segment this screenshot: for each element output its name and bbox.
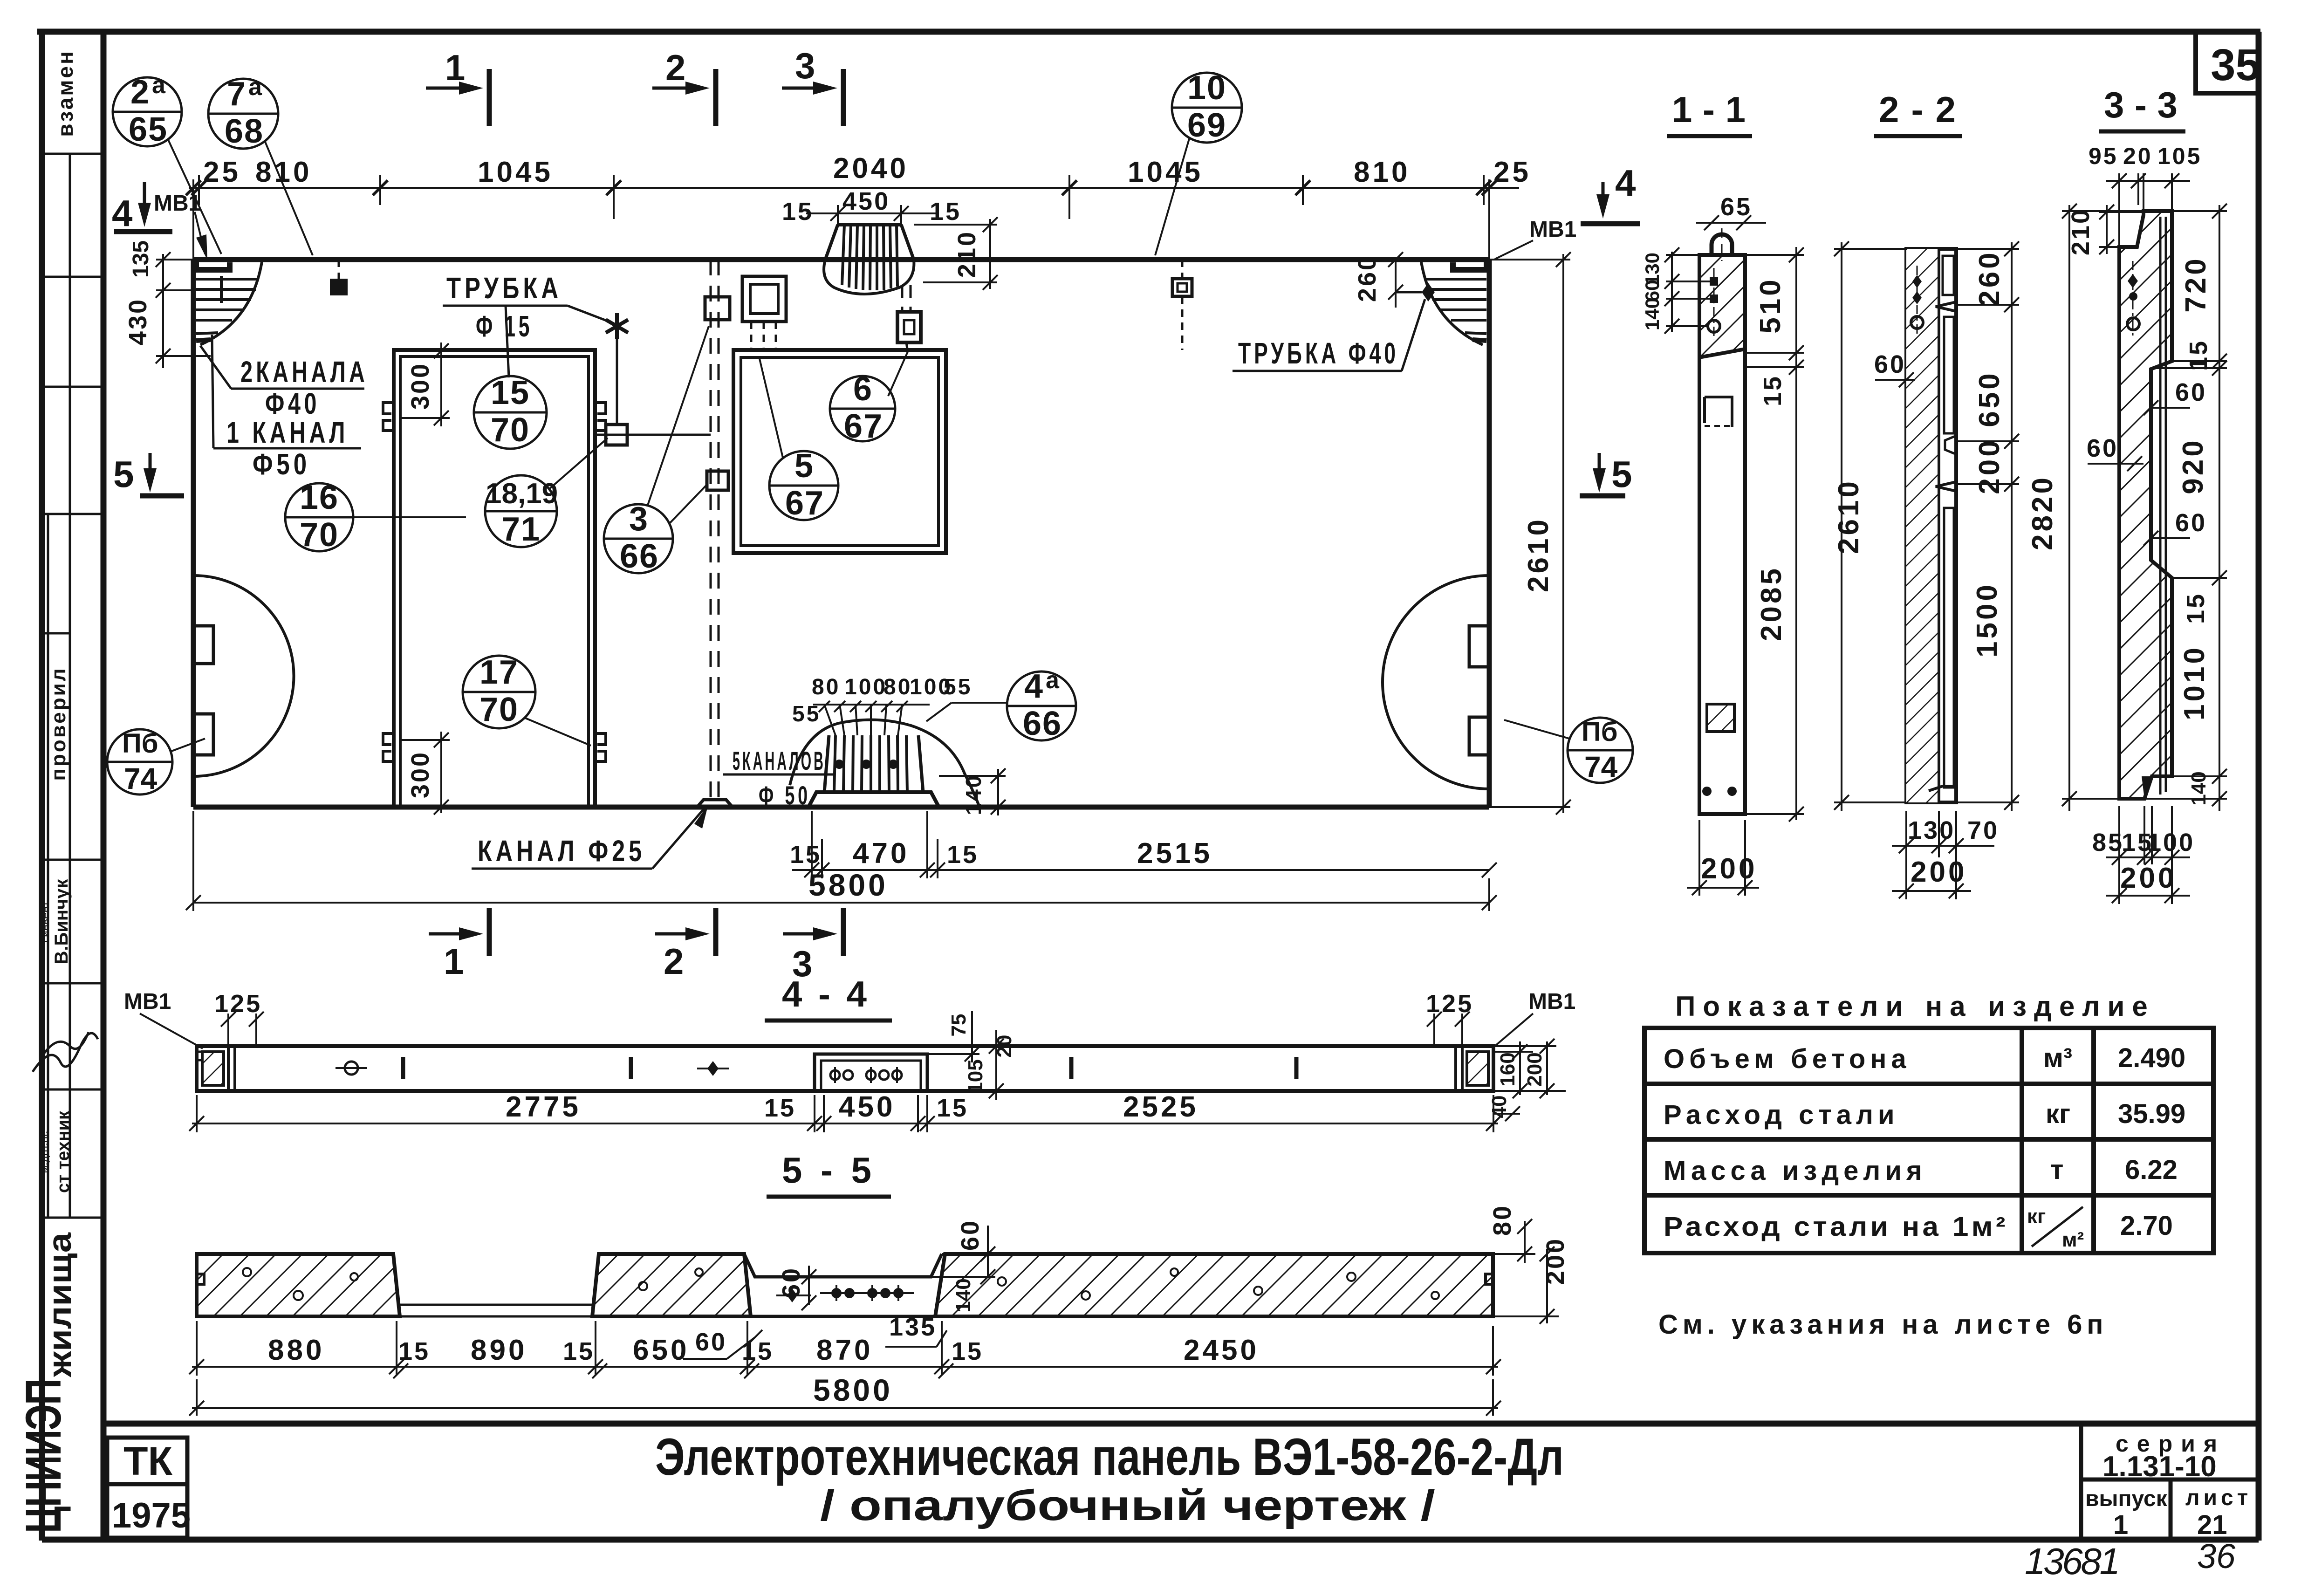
svg-text:2515: 2515 [1137, 837, 1212, 870]
TK box [107, 1438, 187, 1484]
2610 right dim [1489, 252, 1571, 815]
svg-text:100: 100 [844, 675, 887, 699]
svg-text:67: 67 [844, 408, 883, 445]
200 bottom dim [1687, 820, 1759, 896]
svg-text:35.99: 35.99 [2118, 1099, 2185, 1129]
svg-text:2: 2 [665, 47, 685, 88]
circle 5/67 [760, 359, 838, 522]
svg-text:720: 720 [2180, 256, 2212, 312]
svg-text:69: 69 [1187, 107, 1226, 144]
svg-text:а: а [248, 74, 262, 101]
140 pedestal dim [939, 768, 1006, 815]
svg-text:ст техник: ст техник [54, 1110, 73, 1193]
svg-text:ТРУБКА: ТРУБКА [446, 271, 562, 305]
svg-text:40: 40 [1488, 1096, 1511, 1118]
svg-text:м.днт.нг.: м.днт.нг. [38, 1130, 50, 1173]
svg-text:66: 66 [1023, 705, 1062, 742]
svg-text:75: 75 [947, 1014, 970, 1037]
svg-text:125: 125 [214, 990, 262, 1018]
svg-text:60: 60 [777, 1267, 805, 1298]
svg-text:260: 260 [1973, 250, 2006, 306]
trubka f15 riser line [616, 326, 618, 425]
svg-text:210: 210 [2067, 208, 2095, 255]
formwork panel 1 (left) [394, 350, 595, 807]
svg-text:36: 36 [2197, 1537, 2236, 1575]
face slots and notches [1943, 256, 1954, 295]
svg-text:Ф 50: Ф 50 [759, 781, 811, 810]
svg-text:Объем бетона: Объем бетона [1664, 1044, 1911, 1074]
svg-text:15: 15 [782, 198, 814, 226]
dashed channel line pair [711, 260, 719, 802]
2-2 left 2610 dim [1834, 241, 1906, 811]
svg-text:55: 55 [792, 702, 821, 726]
svg-text:5: 5 [113, 453, 134, 495]
label 5 KANALOV f50 [723, 746, 834, 810]
65 dim [1696, 215, 1766, 230]
svg-text:5800: 5800 [813, 1373, 893, 1407]
svg-text:5: 5 [794, 447, 814, 485]
circle IIb/74 right [1504, 717, 1633, 784]
svg-text:200: 200 [1973, 438, 2006, 494]
circle 17/70 [463, 654, 591, 746]
svg-text:2.70: 2.70 [2120, 1211, 2173, 1241]
svg-text:2.490: 2.490 [2118, 1043, 2185, 1073]
svg-text:4 - 4: 4 - 4 [782, 973, 867, 1014]
top dots [2128, 274, 2138, 288]
svg-text:70: 70 [479, 691, 519, 728]
svg-text:67: 67 [785, 485, 824, 522]
260 vertical dim right [1388, 252, 1403, 308]
svg-text:Расход стали: Расход стали [1664, 1100, 1899, 1130]
hatched head block [1699, 255, 1745, 357]
200 dim right [1493, 1247, 1559, 1324]
svg-text:Пб: Пб [1582, 717, 1618, 747]
svg-text:взамен: взамен [53, 49, 77, 137]
2-2 bottom dims [1892, 811, 1994, 899]
svg-text:МВ1: МВ1 [1528, 989, 1575, 1014]
svg-text:15: 15 [952, 1337, 983, 1365]
connector line panel1 to channel [595, 434, 711, 436]
svg-text:2КАНАЛА: 2КАНАЛА [240, 355, 368, 389]
svg-text:60: 60 [1874, 350, 1906, 378]
svg-text:15: 15 [930, 198, 961, 226]
section mark 3 bottom [783, 908, 843, 984]
svg-text:15: 15 [937, 1094, 968, 1122]
svg-text:74: 74 [1584, 750, 1618, 784]
2820 left dim [2062, 204, 2144, 811]
300 dim top panel1 [402, 342, 450, 426]
svg-text:140: 140 [2187, 771, 2210, 805]
svg-text:1045: 1045 [1128, 156, 1203, 188]
panel outline [193, 260, 1489, 807]
svg-text:лист: лист [2185, 1486, 2252, 1510]
anchor dots [1710, 277, 1718, 286]
svg-text:5КАНАЛОВ: 5КАНАЛОВ [733, 746, 826, 775]
svg-text:125: 125 [1426, 990, 1473, 1018]
svg-text:7: 7 [227, 75, 247, 113]
svg-text:1: 1 [445, 47, 465, 88]
svg-text:4: 4 [1024, 668, 1044, 705]
75/20/105 dims right of recess [927, 1011, 1004, 1100]
circle 4a/66 [926, 667, 1076, 742]
section mark 4 right + MB1 label [1495, 162, 1640, 259]
trubka f15 star symbol [606, 313, 628, 339]
svg-text:2525: 2525 [1123, 1091, 1198, 1123]
svg-text:2: 2 [664, 941, 684, 982]
svg-text:1 - 1: 1 - 1 [1672, 89, 1746, 130]
svg-text:60: 60 [2087, 434, 2118, 462]
junction box on top edge [330, 279, 348, 295]
svg-text:210: 210 [953, 230, 981, 278]
bottom dim chain 15-470-15-2515 [792, 811, 1497, 878]
svg-text:1: 1 [444, 941, 464, 982]
left end block [197, 1046, 235, 1091]
channel fan top-right [1421, 262, 1486, 345]
top dimension chain [189, 175, 1519, 260]
corrugated channel top (450) [824, 225, 914, 294]
svg-text:2040: 2040 [833, 152, 909, 185]
svg-text:300: 300 [406, 751, 434, 798]
svg-text:1.131-10: 1.131-10 [2102, 1451, 2217, 1483]
svg-text:71: 71 [501, 511, 541, 548]
svg-text:2: 2 [130, 74, 150, 111]
label 1 KANAL f50 [212, 335, 361, 481]
svg-text:65: 65 [129, 111, 168, 148]
connector box [606, 425, 627, 445]
middle hatched block 650 [592, 1254, 751, 1316]
svg-text:В.Бинчук: В.Бинчук [51, 879, 72, 965]
section 3-3 column [2119, 211, 2172, 799]
svg-text:Масса изделия: Масса изделия [1664, 1156, 1927, 1186]
svg-text:МВ1: МВ1 [124, 989, 171, 1014]
circle 16/70 [285, 479, 466, 554]
left edge arc [193, 575, 294, 776]
svg-text:15: 15 [790, 841, 822, 869]
left edge notches [193, 626, 213, 664]
svg-text:ЦНИИЭП: ЦНИИЭП [15, 1379, 71, 1533]
label 2 KANALA f40 [200, 346, 368, 420]
section mark 5 right [1580, 453, 1632, 496]
svg-text:1 КАНАЛ: 1 КАНАЛ [226, 416, 349, 449]
svg-text:МВ1: МВ1 [1529, 217, 1576, 242]
wire box on dashed line (top) [705, 297, 730, 320]
svg-text:650: 650 [633, 1334, 689, 1366]
svg-text:135: 135 [889, 1313, 937, 1341]
210 dim [2099, 205, 2143, 254]
svg-text:430: 430 [124, 298, 152, 345]
svg-text:15: 15 [742, 1337, 774, 1365]
svg-text:105: 105 [964, 1059, 987, 1093]
lifting loop [1712, 234, 1732, 255]
hatched insert [1707, 704, 1734, 732]
svg-text:ТК: ТК [123, 1439, 173, 1484]
concrete pebbles [243, 1268, 1439, 1300]
svg-text:260: 260 [1353, 254, 1381, 302]
svg-text:80: 80 [1488, 1204, 1516, 1236]
svg-text:Ф50: Ф50 [253, 447, 310, 481]
svg-text:м²: м² [2062, 1228, 2084, 1251]
svg-text:200: 200 [1541, 1237, 1569, 1285]
svg-text:т.инвент.: т.инвент. [39, 899, 52, 944]
svg-text:кг: кг [2027, 1205, 2046, 1228]
4-4 dim chain [189, 1095, 1501, 1132]
circle 18,19/71 [485, 438, 608, 548]
wire box on dashed line (middle) [707, 471, 728, 490]
svg-text:100: 100 [2147, 829, 2195, 856]
svg-text:5800: 5800 [808, 868, 888, 902]
svg-text:450: 450 [839, 1091, 895, 1123]
svg-text:140: 140 [961, 774, 986, 815]
strip outline [197, 1046, 1493, 1091]
panel 1 hinges [383, 403, 606, 761]
formwork panel 2 (right) [733, 350, 946, 553]
signature scribbles [33, 1033, 98, 1072]
svg-text:1500: 1500 [1971, 582, 2003, 658]
svg-text:16: 16 [300, 479, 339, 516]
svg-text:810: 810 [255, 156, 312, 188]
svg-text:200: 200 [1911, 856, 1967, 888]
svg-text:15: 15 [947, 841, 979, 869]
svg-text:15: 15 [764, 1094, 796, 1122]
trubka f40 diamond right [1422, 283, 1435, 301]
svg-text:выпуск: выпуск [2085, 1486, 2168, 1511]
right hatched block 2450 [935, 1254, 1493, 1316]
svg-text:Расход стали на 1м²: Расход стали на 1м² [1664, 1212, 2008, 1242]
svg-text:Электротехническая панель ВЭ: Электротехническая панель ВЭ1-58-26-2-Дл [655, 1428, 1564, 1486]
svg-text:2610: 2610 [1522, 517, 1555, 592]
svg-text:т: т [2050, 1155, 2063, 1185]
right edge arc [1383, 575, 1489, 789]
svg-text:5: 5 [1611, 453, 1632, 495]
pedestal at dashed line bottom [697, 800, 733, 807]
svg-text:1: 1 [2113, 1510, 2128, 1540]
svg-text:810: 810 [1354, 156, 1410, 188]
svg-text:890: 890 [471, 1334, 527, 1366]
svg-text:а: а [152, 72, 166, 99]
svg-text:66: 66 [620, 538, 659, 575]
svg-text:15: 15 [1759, 375, 1787, 406]
160/200/40 dims right end [1493, 1039, 1566, 1121]
5-5 dim chain [189, 1321, 1501, 1378]
svg-text:25: 25 [1493, 156, 1531, 188]
svg-text:80: 80 [812, 675, 840, 699]
top dots [1912, 275, 1922, 288]
svg-text:Пб: Пб [122, 728, 158, 759]
svg-text:Ф 15: Ф 15 [476, 309, 533, 343]
svg-text:5 - 5: 5 - 5 [782, 1150, 871, 1191]
svg-text:/ опалубочный чертеж /: / опалубочный чертеж / [820, 1482, 1435, 1529]
60 recess depth dim [801, 1266, 816, 1310]
svg-text:60: 60 [2175, 509, 2207, 537]
svg-text:70: 70 [300, 516, 339, 554]
svg-text:3: 3 [629, 500, 649, 538]
left 140/60/130 dims [1664, 247, 1710, 334]
210 vertical dim [914, 217, 998, 290]
svg-text:85: 85 [2092, 829, 2124, 856]
60 step dim top [931, 1226, 995, 1284]
300 dim bottom panel1 [402, 732, 450, 815]
svg-text:15: 15 [563, 1337, 595, 1365]
svg-text:6: 6 [853, 370, 873, 408]
svg-text:60: 60 [695, 1328, 727, 1356]
svg-text:См. указания на листе 6п: См. указания на листе 6п [1658, 1309, 2108, 1340]
middle recess with anchors [815, 1054, 927, 1091]
circle 10/69 [1155, 69, 1242, 255]
corrugated channel bottom (5 channels) [790, 720, 979, 807]
svg-text:жилища: жилища [41, 1232, 78, 1377]
bottom dots [1702, 787, 1712, 796]
section mark 2 top [652, 47, 716, 126]
bottom 5800 dim [186, 811, 1497, 911]
2-2 right dim chain [1956, 241, 2019, 811]
svg-text:КАНАЛ Ф25: КАНАЛ Ф25 [478, 834, 645, 868]
svg-text:65: 65 [1720, 193, 1752, 221]
svg-text:105: 105 [2157, 143, 2202, 169]
95 20 105 dims [2089, 143, 2202, 169]
bottom corrugation fan dims [813, 701, 930, 735]
svg-text:200: 200 [2120, 862, 2177, 894]
MB1 corner socket top-left [196, 260, 230, 270]
svg-text:10: 10 [1187, 69, 1226, 107]
svg-text:1975: 1975 [112, 1496, 191, 1535]
5-5 5800 dim [189, 1379, 1501, 1416]
svg-text:20: 20 [993, 1035, 1016, 1058]
open recess [1705, 397, 1732, 427]
svg-text:3 - 3: 3 - 3 [2104, 84, 2178, 125]
svg-text:1045: 1045 [478, 156, 553, 188]
svg-text:2085: 2085 [1755, 566, 1787, 641]
svg-text:68: 68 [225, 113, 264, 150]
svg-text:м³: м³ [2043, 1043, 2072, 1073]
series box [2081, 1424, 2259, 1540]
section mark 4 left + MB1 label [112, 182, 207, 260]
svg-text:70: 70 [491, 411, 530, 449]
svg-text:6.22: 6.22 [2125, 1155, 2178, 1185]
circle 3/66 [604, 326, 709, 575]
svg-text:15: 15 [398, 1337, 430, 1365]
450 opening dim [806, 205, 937, 225]
section mark 1 top [426, 47, 489, 126]
svg-text:200: 200 [1523, 1052, 1546, 1086]
svg-text:55: 55 [944, 675, 972, 699]
svg-text:80: 80 [883, 675, 912, 699]
svg-text:Показатели на изделие: Показатели на изделие [1675, 991, 2155, 1022]
circle IIb/74 left [107, 728, 205, 795]
label TRUBKA f40 [1233, 299, 1425, 371]
svg-text:510: 510 [1754, 277, 1787, 333]
sheet number box 35 [2196, 34, 2260, 93]
section mark 1 bottom [429, 908, 489, 982]
svg-text:а: а [1046, 667, 1060, 694]
svg-text:кг: кг [2046, 1099, 2070, 1129]
svg-text:300: 300 [406, 362, 434, 410]
inserts along strip [336, 1057, 1296, 1079]
svg-text:140: 140 [952, 1278, 975, 1312]
svg-text:870: 870 [816, 1334, 873, 1366]
svg-text:13681: 13681 [2025, 1541, 2120, 1582]
svg-text:130: 130 [1908, 816, 1955, 844]
section 2-2 column [1906, 249, 1956, 802]
section mark 3 top [782, 45, 843, 126]
switch box double square top [742, 276, 786, 322]
svg-text:21: 21 [2197, 1510, 2227, 1540]
svg-text:160: 160 [1496, 1052, 1519, 1086]
135 430 left dims [156, 252, 211, 368]
section mark 5 left [113, 453, 184, 496]
svg-text:2820: 2820 [2027, 475, 2059, 550]
right end block [1456, 1046, 1488, 1091]
circle 6/67 [830, 349, 909, 445]
circle 7a/68 [208, 74, 313, 255]
svg-text:проверил: проверил [47, 666, 70, 781]
svg-text:15: 15 [2182, 592, 2210, 624]
gap bottom flange [400, 1304, 592, 1306]
MB1 corner socket top-right [1453, 260, 1486, 270]
svg-text:2775: 2775 [506, 1091, 581, 1123]
junction box right on top edge [1172, 279, 1192, 296]
section 1-1 dims [1745, 247, 1804, 822]
section 1-1 column [1699, 228, 1745, 814]
svg-text:920: 920 [2177, 438, 2209, 494]
junction box above panel2 right [902, 285, 911, 312]
svg-text:70: 70 [1967, 816, 1999, 844]
svg-text:450: 450 [842, 187, 890, 215]
svg-text:17: 17 [479, 654, 519, 691]
svg-text:74: 74 [124, 762, 158, 795]
svg-text:3: 3 [795, 45, 815, 86]
title block [103, 1424, 2259, 1582]
svg-text:60: 60 [2175, 378, 2207, 406]
right edge notches [1469, 626, 1489, 667]
circle 2a/65 [113, 72, 221, 254]
recess tray 870 [744, 1254, 942, 1277]
label TRUBKA f15 [443, 271, 614, 377]
svg-text:4: 4 [1615, 162, 1636, 204]
svg-text:135: 135 [129, 240, 153, 278]
svg-text:25: 25 [203, 156, 241, 188]
svg-text:1010: 1010 [2178, 645, 2211, 720]
svg-text:ТРУБКА Ф40: ТРУБКА Ф40 [1238, 336, 1399, 370]
3-3 right dim chain [2144, 204, 2227, 811]
svg-text:650: 650 [1973, 370, 2006, 427]
svg-text:200: 200 [1701, 853, 1757, 885]
svg-text:140: 140 [1641, 298, 1663, 330]
svg-text:2610: 2610 [1833, 479, 1865, 554]
pedestal under bottom corrugation [808, 792, 939, 807]
svg-text:20: 20 [2123, 143, 2153, 169]
svg-text:2450: 2450 [1184, 1334, 1259, 1366]
80 dim right [1493, 1219, 1535, 1263]
left sidebar [15, 49, 103, 1533]
svg-text:35: 35 [2211, 40, 2260, 90]
svg-text:2 - 2: 2 - 2 [1879, 89, 1956, 130]
label KANAL f25 [472, 804, 708, 869]
3-3 bottom dims [2106, 806, 2190, 904]
svg-text:15: 15 [491, 374, 530, 411]
svg-text:60: 60 [956, 1219, 984, 1251]
left hatched block 880 [197, 1254, 400, 1316]
svg-text:4: 4 [112, 192, 133, 234]
channel fan top-left [196, 262, 262, 345]
section mark 2 bottom [655, 908, 716, 982]
svg-text:95: 95 [2089, 143, 2118, 169]
svg-text:18,19: 18,19 [486, 478, 558, 510]
svg-text:880: 880 [268, 1334, 324, 1366]
svg-text:470: 470 [853, 837, 909, 870]
circle 15/70 [474, 374, 547, 449]
svg-text:15: 15 [2185, 339, 2212, 371]
